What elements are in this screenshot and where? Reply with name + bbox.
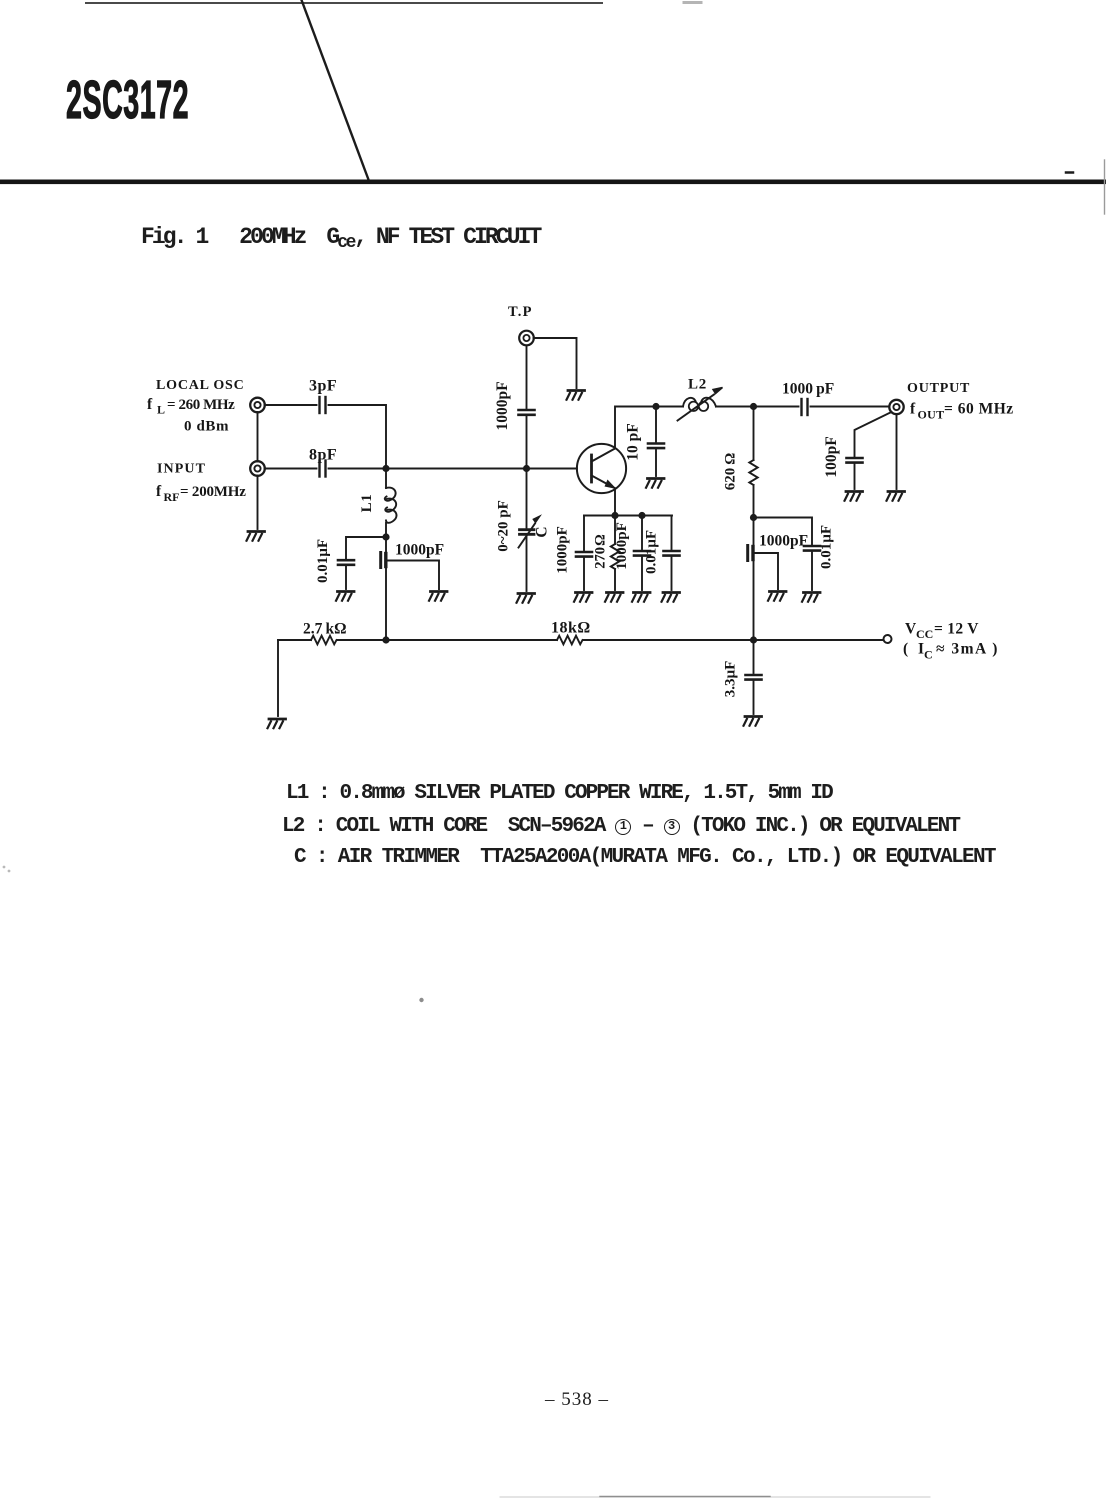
svg-text:CC: CC [916, 627, 933, 641]
transistor Q1 2SC3172 [577, 444, 626, 493]
ground (10pF) [646, 479, 664, 488]
ground (trimmer) [517, 594, 535, 603]
svg-text:= 260 MHz: = 260 MHz [167, 397, 235, 413]
svg-text:1000pF: 1000pF [494, 381, 511, 430]
node junction base row / trimmer line [523, 465, 530, 472]
capacitor 0.01uF (emitter bus 3) [644, 516, 680, 591]
wire L2 to 1000pF [716, 406, 799, 408]
svg-text:= 12 V: = 12 V [934, 621, 979, 638]
wire 10pF branch [655, 407, 657, 442]
wire feedthrough tap to ground (right) [755, 553, 779, 589]
node bus junction [638, 512, 645, 519]
label LOCAL OSC [147, 378, 245, 435]
terminal VCC [884, 621, 999, 662]
figure caption [141, 224, 539, 253]
ground (100pF) [845, 492, 863, 501]
wire L1 line down to bias rail [385, 539, 387, 640]
svg-text:RF: RF [164, 490, 180, 504]
wire local osc to 3pF [265, 404, 317, 406]
svg-text:T.P: T.P [508, 304, 533, 320]
wire rail left end to ground [277, 640, 279, 716]
capacitor 1000pF feedthrough (620 line) [748, 533, 808, 561]
wire collector up and right [615, 407, 683, 449]
wire feedthrough tap to ground [388, 561, 440, 590]
wire T.P down to 1000pF [526, 346, 528, 409]
resistor 18k ohm [551, 620, 591, 645]
wire 10pF to ground [655, 450, 657, 476]
svg-text:L2: L2 [688, 377, 707, 393]
node junction rail / 620 line [750, 636, 757, 643]
resistor 620 ohm [723, 407, 758, 518]
wire junction to 0.01uF [754, 518, 813, 545]
svg-text:3pF: 3pF [309, 378, 337, 395]
wire trimmer to ground [526, 537, 528, 592]
wire 1000pF to output terminal [811, 406, 890, 408]
inductor L1 [359, 469, 397, 538]
wire base row down to trimmer [526, 469, 528, 528]
svg-text:0~20 pF: 0~20 pF [496, 500, 512, 552]
ground (bus cap 2) [632, 593, 650, 602]
svg-text:10 pF: 10 pF [625, 423, 642, 460]
svg-text:C: C [534, 526, 551, 537]
bias rail wire [278, 639, 883, 641]
wire between input terminals [257, 412, 259, 462]
svg-text:L: L [157, 403, 165, 417]
capacitor 10pF [625, 423, 665, 460]
capacitor 100pF [823, 436, 863, 477]
terminal LOCAL OSC [250, 398, 265, 413]
ground (rail left) [268, 719, 286, 728]
svg-text:100pF: 100pF [823, 436, 840, 477]
faint bottom rule [500, 1496, 930, 1499]
svg-text:1000pF: 1000pF [614, 522, 630, 570]
capacitor 3pF [309, 378, 337, 414]
svg-text:L1: L1 [359, 494, 375, 513]
wire 0.01uF to ground [811, 553, 813, 591]
svg-text:1000pF: 1000pF [555, 526, 571, 574]
scan speck [3, 866, 424, 1003]
ground (output terminal) [887, 492, 905, 501]
svg-text:1000 pF: 1000 pF [782, 381, 834, 398]
heading 2SC3172 [66, 69, 189, 131]
terminal T.P [508, 304, 534, 345]
emitter bus wire [584, 515, 672, 517]
wire 1000pF to base row [526, 417, 528, 469]
capacitor 0.01uF (right) [804, 525, 835, 569]
svg-text:1000pF: 1000pF [759, 533, 808, 550]
node collector / 10pF junction [652, 403, 659, 410]
svg-text:C: C [924, 648, 933, 662]
note L1 [286, 782, 832, 805]
wire 620 line down to rail [753, 519, 755, 640]
svg-text:= 200MHz: = 200MHz [180, 484, 246, 500]
svg-text:LOCAL OSC: LOCAL OSC [156, 378, 245, 393]
ground (bus cap 1) [574, 593, 592, 602]
ground (input terminal) [247, 532, 265, 541]
svg-text:OUT: OUT [918, 408, 945, 422]
top edge rule segment [86, 2, 701, 5]
node emitter junction [611, 512, 618, 519]
svg-text:f: f [910, 401, 916, 418]
node junction base row / L1 [382, 465, 389, 472]
wire 0.01uF to ground [345, 567, 347, 590]
ground (0.01uF right) [802, 593, 820, 602]
node junction 620 ohm bottom [750, 514, 757, 521]
wire emitter down [614, 488, 616, 515]
svg-text:3.3µF: 3.3µF [723, 661, 739, 698]
note C [283, 846, 995, 869]
ground (3.3uF) [744, 717, 762, 726]
svg-text:INPUT: INPUT [157, 462, 206, 477]
svg-text:8pF: 8pF [309, 447, 337, 464]
capacitor 1000pF (emitter bus 2) [614, 516, 650, 591]
terminal INPUT [250, 461, 265, 476]
diagonal separator line [302, 0, 370, 181]
capacitor 1000pF feedthrough (L1 line) [381, 542, 444, 568]
wire base row: 8pF to transistor base [329, 468, 578, 470]
label INPUT [156, 462, 246, 505]
wire 3pF to corner, down to input row [329, 405, 387, 469]
wire L1 bottom to 0.01uF [346, 537, 386, 558]
svg-text:0.01µF: 0.01µF [644, 530, 660, 574]
svg-text:f: f [147, 396, 153, 413]
thick horizontal rule [0, 180, 1106, 185]
capacitor 1000pF (output coupling) [782, 381, 834, 416]
svg-text:270 Ω: 270 Ω [593, 534, 609, 569]
ground (bus cap 3) [662, 593, 680, 602]
ground (270 ohm) [605, 593, 623, 602]
ground (1000pF right) [768, 592, 786, 601]
wire output terminal to ground [896, 414, 898, 489]
node junction rail / L1 line [382, 636, 389, 643]
svg-text:620 Ω: 620 Ω [723, 453, 739, 491]
capacitor 8pF [309, 447, 337, 477]
wire T.P to ground arm [534, 338, 577, 388]
capacitor 1000pF (T.P) [494, 381, 535, 430]
svg-text:2.7 kΩ: 2.7 kΩ [303, 621, 347, 638]
ground (T.P arm) [567, 391, 585, 400]
resistor 270 ohm [593, 516, 620, 591]
ground (1000pF L1 side) [429, 592, 447, 601]
page number [545, 1389, 609, 1411]
right edge mark [1066, 160, 1105, 214]
svg-text:= 60 MHz: = 60 MHz [944, 401, 1014, 418]
inductor L2 (variable, with core) [678, 377, 723, 421]
svg-text:f: f [156, 483, 162, 500]
capacitor 3.3uF [723, 640, 762, 714]
svg-text:0 dBm: 0 dBm [184, 419, 229, 435]
svg-text:0.01µF: 0.01µF [819, 525, 835, 569]
terminal OUTPUT [889, 381, 1013, 422]
svg-text:1000pF: 1000pF [395, 542, 444, 559]
node junction collector row / 620 ohm [750, 403, 757, 410]
node junction below L1 [382, 533, 389, 540]
capacitor 1000pF (emitter bus 1) [555, 516, 593, 591]
wire input to 8pF [265, 468, 317, 470]
resistor 2.7k ohm [303, 621, 347, 645]
svg-text:0.01µF: 0.01µF [315, 539, 331, 583]
wire output to 100pF (diagonal) [855, 412, 892, 456]
wire input terminal to ground [257, 476, 259, 530]
svg-text:18kΩ: 18kΩ [551, 620, 591, 637]
ground (0.01uF L1 side) [336, 592, 354, 601]
trimmer capacitor C 0~20pF [496, 500, 551, 552]
note L2 [282, 815, 959, 838]
svg-text:≈ 3mA ): ≈ 3mA ) [936, 641, 999, 658]
capacitor 0.01uF (L1 side) [315, 539, 354, 583]
svg-text:OUTPUT: OUTPUT [907, 381, 970, 396]
wire 100pF to ground [854, 465, 856, 490]
